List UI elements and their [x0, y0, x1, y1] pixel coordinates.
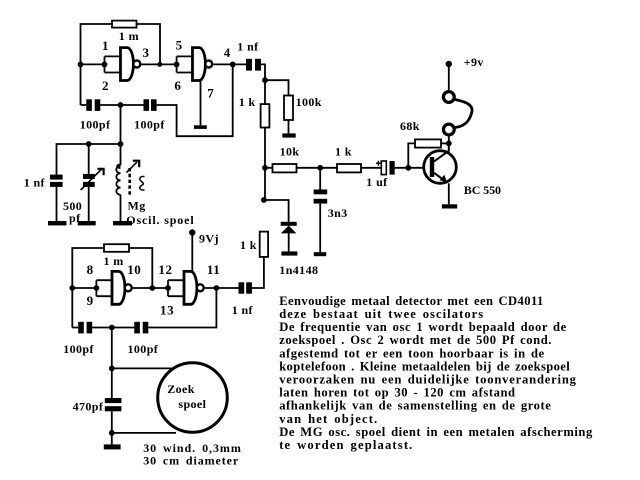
- svg-text:1 m: 1 m: [104, 254, 124, 268]
- svg-text:Mg: Mg: [128, 199, 146, 213]
- node gate3 in: [94, 285, 100, 291]
- svg-text:3: 3: [143, 45, 150, 60]
- node 9v supply dot osc2: [189, 229, 195, 235]
- capacitor C 100pf osc1 right: [144, 99, 157, 111]
- svg-text:4: 4: [224, 45, 231, 60]
- svg-text:30 cm diameter: 30 cm diameter: [143, 454, 239, 468]
- resistor R 10k: [273, 164, 297, 172]
- node gate4 in: [165, 285, 171, 291]
- wire osc1 cap row: [81, 64, 233, 136]
- wire base node up to 68k: [408, 143, 415, 167]
- node zoek top: [109, 366, 115, 372]
- wire zoek top: [112, 367, 173, 369]
- Mg core dashed: [128, 168, 131, 196]
- ground bar 500pf: [78, 221, 96, 225]
- svg-text:te worden geplaatst.: te worden geplaatst.: [279, 438, 413, 452]
- resistor R 1k vertical bottom: [260, 232, 268, 257]
- node gate2 out: [230, 62, 236, 68]
- diode branch wire: [265, 200, 289, 222]
- wire gate3 out to gate4 in: [133, 287, 168, 289]
- wire gate4 output: [205, 287, 239, 289]
- svg-text:koptelefoon . Kleine metaaldel: koptelefoon . Kleine metaaldelen bij de …: [279, 359, 570, 373]
- svg-text:100k: 100k: [296, 95, 322, 109]
- wire 68k to collector node: [441, 142, 449, 144]
- svg-text:100pf: 100pf: [80, 118, 111, 132]
- wire 1k down to 10k row: [265, 128, 273, 201]
- ground bar diode: [281, 251, 297, 255]
- node gate3 in left: [69, 285, 75, 291]
- capacitor C 500pf variable: [83, 174, 95, 187]
- node +9v dot: [446, 61, 452, 67]
- node diode branch: [261, 197, 267, 203]
- wire feedback top osc1: [81, 24, 161, 105]
- svg-text:9: 9: [87, 293, 94, 308]
- resistor R 1m osc1: [112, 21, 137, 28]
- emitter arrowhead: [440, 175, 447, 182]
- resistor R 68k: [415, 139, 441, 147]
- wire pin7 to ground: [200, 82, 202, 126]
- svg-text:100pf: 100pf: [128, 342, 159, 356]
- coil L zoek spoel circle: [158, 363, 228, 433]
- svg-text:12: 12: [158, 262, 172, 277]
- node gate3 out: [149, 285, 155, 291]
- wire 1k bottom to osc2 out: [252, 257, 264, 288]
- wire gate3 input bracket: [96, 280, 112, 296]
- wire 1nf to ground: [56, 187, 58, 221]
- wire 500pf top: [88, 144, 90, 174]
- BODY TEXT: [279, 294, 593, 452]
- wire 9v to gate4: [191, 235, 193, 272]
- wire gate1 input: [81, 63, 105, 65]
- wire jack to node: [448, 135, 450, 143]
- svg-text:8: 8: [87, 262, 94, 277]
- gate1 bubble: [133, 61, 140, 68]
- diode D 1n4148: [281, 222, 297, 226]
- svg-text:laten horen tot op 30 - 120 cm: laten horen tot op 30 - 120 cm afstand: [279, 386, 515, 400]
- base bar: [430, 157, 434, 177]
- wire osc1 tank top: [57, 144, 121, 175]
- emitter line: [434, 173, 446, 182]
- transistor Q1 BC550 circle: [424, 151, 457, 184]
- svg-text:deze bestaat uit twee oscilato: deze bestaat uit twee oscilators: [279, 307, 484, 321]
- svg-text:Zoek: Zoek: [167, 382, 195, 396]
- resistor R 1m osc2: [104, 244, 129, 252]
- op-amp U1A nand gate 1: [121, 48, 134, 81]
- gate4 bubble: [197, 284, 204, 291]
- ground bar zoek: [104, 444, 121, 449]
- ground bar 100k: [282, 133, 295, 137]
- capacitor C 1nf coupling osc2: [239, 282, 252, 293]
- wire gate2 input bracket: [177, 56, 192, 72]
- svg-text:1 k: 1 k: [335, 145, 352, 159]
- wire 100k to ground: [288, 120, 290, 133]
- wire 1k to 1uf: [361, 167, 381, 169]
- svg-text:pf: pf: [69, 211, 81, 225]
- ground bar 1nf: [48, 221, 67, 225]
- svg-text:1 k: 1 k: [239, 95, 256, 109]
- node zoek bottom: [109, 430, 115, 436]
- ground bar 3n3: [314, 252, 326, 256]
- wire 470pf to bottom node: [111, 411, 113, 444]
- svg-text:afgestemd tot er een toon hoor: afgestemd tot er een toon hoorbaar is in…: [279, 346, 544, 360]
- jack cable curve: [455, 100, 472, 128]
- svg-text:veroorzaken nu een duidelijke: veroorzaken nu een duidelijke toonverand…: [279, 373, 577, 387]
- node dots: [69, 62, 451, 436]
- svg-text:2: 2: [102, 78, 109, 93]
- svg-text:470pf: 470pf: [73, 400, 104, 414]
- node 10k row right: [317, 165, 323, 171]
- node caps mid osc2: [109, 325, 115, 331]
- gate2 bubble: [205, 61, 212, 68]
- wire gate4 input bracket: [168, 280, 184, 296]
- node gate1 in left: [78, 62, 84, 68]
- jack circle bottom: [443, 124, 454, 135]
- wire gate1 out to gate2 in: [142, 63, 177, 65]
- wire gate1 input bracket: [105, 56, 121, 72]
- svg-text:1 uf: 1 uf: [366, 175, 388, 189]
- inductor L Mg oscil spoel: [117, 144, 120, 168]
- ground bar coil: [113, 221, 132, 225]
- capacitor C 100pf osc1 left: [86, 99, 100, 111]
- svg-text:13: 13: [160, 303, 174, 318]
- svg-text:1 k: 1 k: [240, 238, 257, 252]
- wire zoek bottom: [112, 432, 176, 434]
- svg-text:100pf: 100pf: [63, 342, 94, 356]
- svg-text:1: 1: [102, 38, 109, 53]
- capacitor C 100pf osc2 right: [134, 322, 148, 334]
- svg-text:68k: 68k: [400, 119, 420, 133]
- node gate1 out: [157, 62, 162, 67]
- 500pf arrow: [81, 169, 102, 190]
- wire 3n3 branch: [319, 168, 321, 252]
- resistor R 1k horizontal: [337, 164, 361, 172]
- svg-text:11: 11: [207, 262, 220, 277]
- svg-text:9Vj: 9Vj: [199, 232, 219, 246]
- wire gate2 output: [213, 63, 246, 65]
- svg-text:De MG osc. spoel dient in een: De MG osc. spoel dient in een metalen af…: [279, 425, 593, 439]
- resistor R 100k: [284, 96, 293, 121]
- op-amp U1B nand gate 2: [193, 48, 206, 81]
- svg-text:zoekspoel . Osc 2 wordt met d: zoekspoel . Osc 2 wordt met de 500 Pf co…: [279, 333, 552, 347]
- svg-text:100pf: 100pf: [134, 118, 165, 132]
- collector line: [434, 143, 449, 161]
- wire emitter to ground: [448, 183, 450, 204]
- wire 500pf to ground: [88, 187, 90, 221]
- svg-text:6: 6: [174, 78, 181, 93]
- node gate1 in: [102, 62, 108, 68]
- capacitor C 3n3: [314, 190, 328, 204]
- wire feedback top osc2: [72, 248, 152, 328]
- svg-text:afhankelijk van de samenstelli: afhankelijk van de samenstelling en de g…: [279, 399, 551, 413]
- resistor R 1k vertical top: [261, 104, 270, 127]
- node gate4 out: [214, 285, 220, 291]
- node collector: [446, 141, 452, 147]
- wire caps mid tap down: [120, 105, 122, 144]
- capacitor C 1nf tank: [50, 175, 63, 187]
- ground bar pin7: [194, 125, 207, 129]
- node tank 500pf: [86, 141, 92, 147]
- svg-text:van het object.: van het object.: [279, 412, 378, 426]
- svg-text:3n3: 3n3: [328, 206, 348, 220]
- svg-text:Oscil. spoel: Oscil. spoel: [126, 213, 194, 227]
- svg-text:7: 7: [207, 86, 214, 101]
- wire 470pf branch: [111, 368, 113, 398]
- svg-text:1 nf: 1 nf: [237, 40, 259, 54]
- gate3 bubble: [125, 284, 132, 291]
- wire 1uf to base node: [395, 167, 430, 169]
- Mg arrow: [127, 162, 138, 173]
- node caps mid osc1: [118, 102, 124, 108]
- capacitor C 100pf osc2 left: [78, 322, 92, 334]
- ground bar emitter: [442, 204, 457, 208]
- wire osc2 cap row: [72, 288, 216, 328]
- node base: [405, 165, 411, 171]
- svg-text:10: 10: [127, 262, 141, 277]
- op-amp U1C nand gate 3: [112, 271, 125, 304]
- wire 9v to jack: [448, 66, 450, 92]
- wire 1nf to node: [261, 64, 289, 104]
- wire 10k to 1k: [297, 167, 338, 169]
- svg-text:5: 5: [176, 38, 183, 53]
- svg-text:spoel: spoel: [178, 397, 206, 411]
- op-amp U1D nand gate 4: [184, 271, 197, 304]
- svg-text:1 nf: 1 nf: [232, 303, 254, 317]
- node gate2 in: [174, 62, 180, 68]
- node 1nf-1k: [262, 77, 268, 83]
- svg-text:1 nf: 1 nf: [24, 176, 46, 190]
- svg-text:1 m: 1 m: [119, 29, 139, 43]
- svg-text:BC 550: BC 550: [464, 183, 501, 197]
- capacitor C 470pf: [105, 398, 122, 411]
- svg-text:1n4148: 1n4148: [279, 263, 318, 277]
- svg-text:De frequentie van osc 1 wordt: De frequentie van osc 1 wordt bepaald do…: [279, 320, 567, 334]
- capacitor C 1uf electrolytic: [381, 161, 386, 175]
- node tank coil: [118, 141, 124, 147]
- jack circle top: [443, 92, 454, 103]
- svg-text:Eenvoudige metaal detector met: Eenvoudige metaal detector met een CD401…: [279, 294, 543, 308]
- svg-text:+9v: +9v: [464, 55, 484, 69]
- wire tap down to zoek tank: [111, 328, 113, 369]
- wire gate3 input: [72, 287, 96, 289]
- svg-text:10k: 10k: [280, 145, 300, 159]
- Mg adjust squiggle: [140, 176, 145, 190]
- node 10k row left: [262, 165, 268, 171]
- capacitor C 1nf coupling top: [246, 59, 261, 71]
